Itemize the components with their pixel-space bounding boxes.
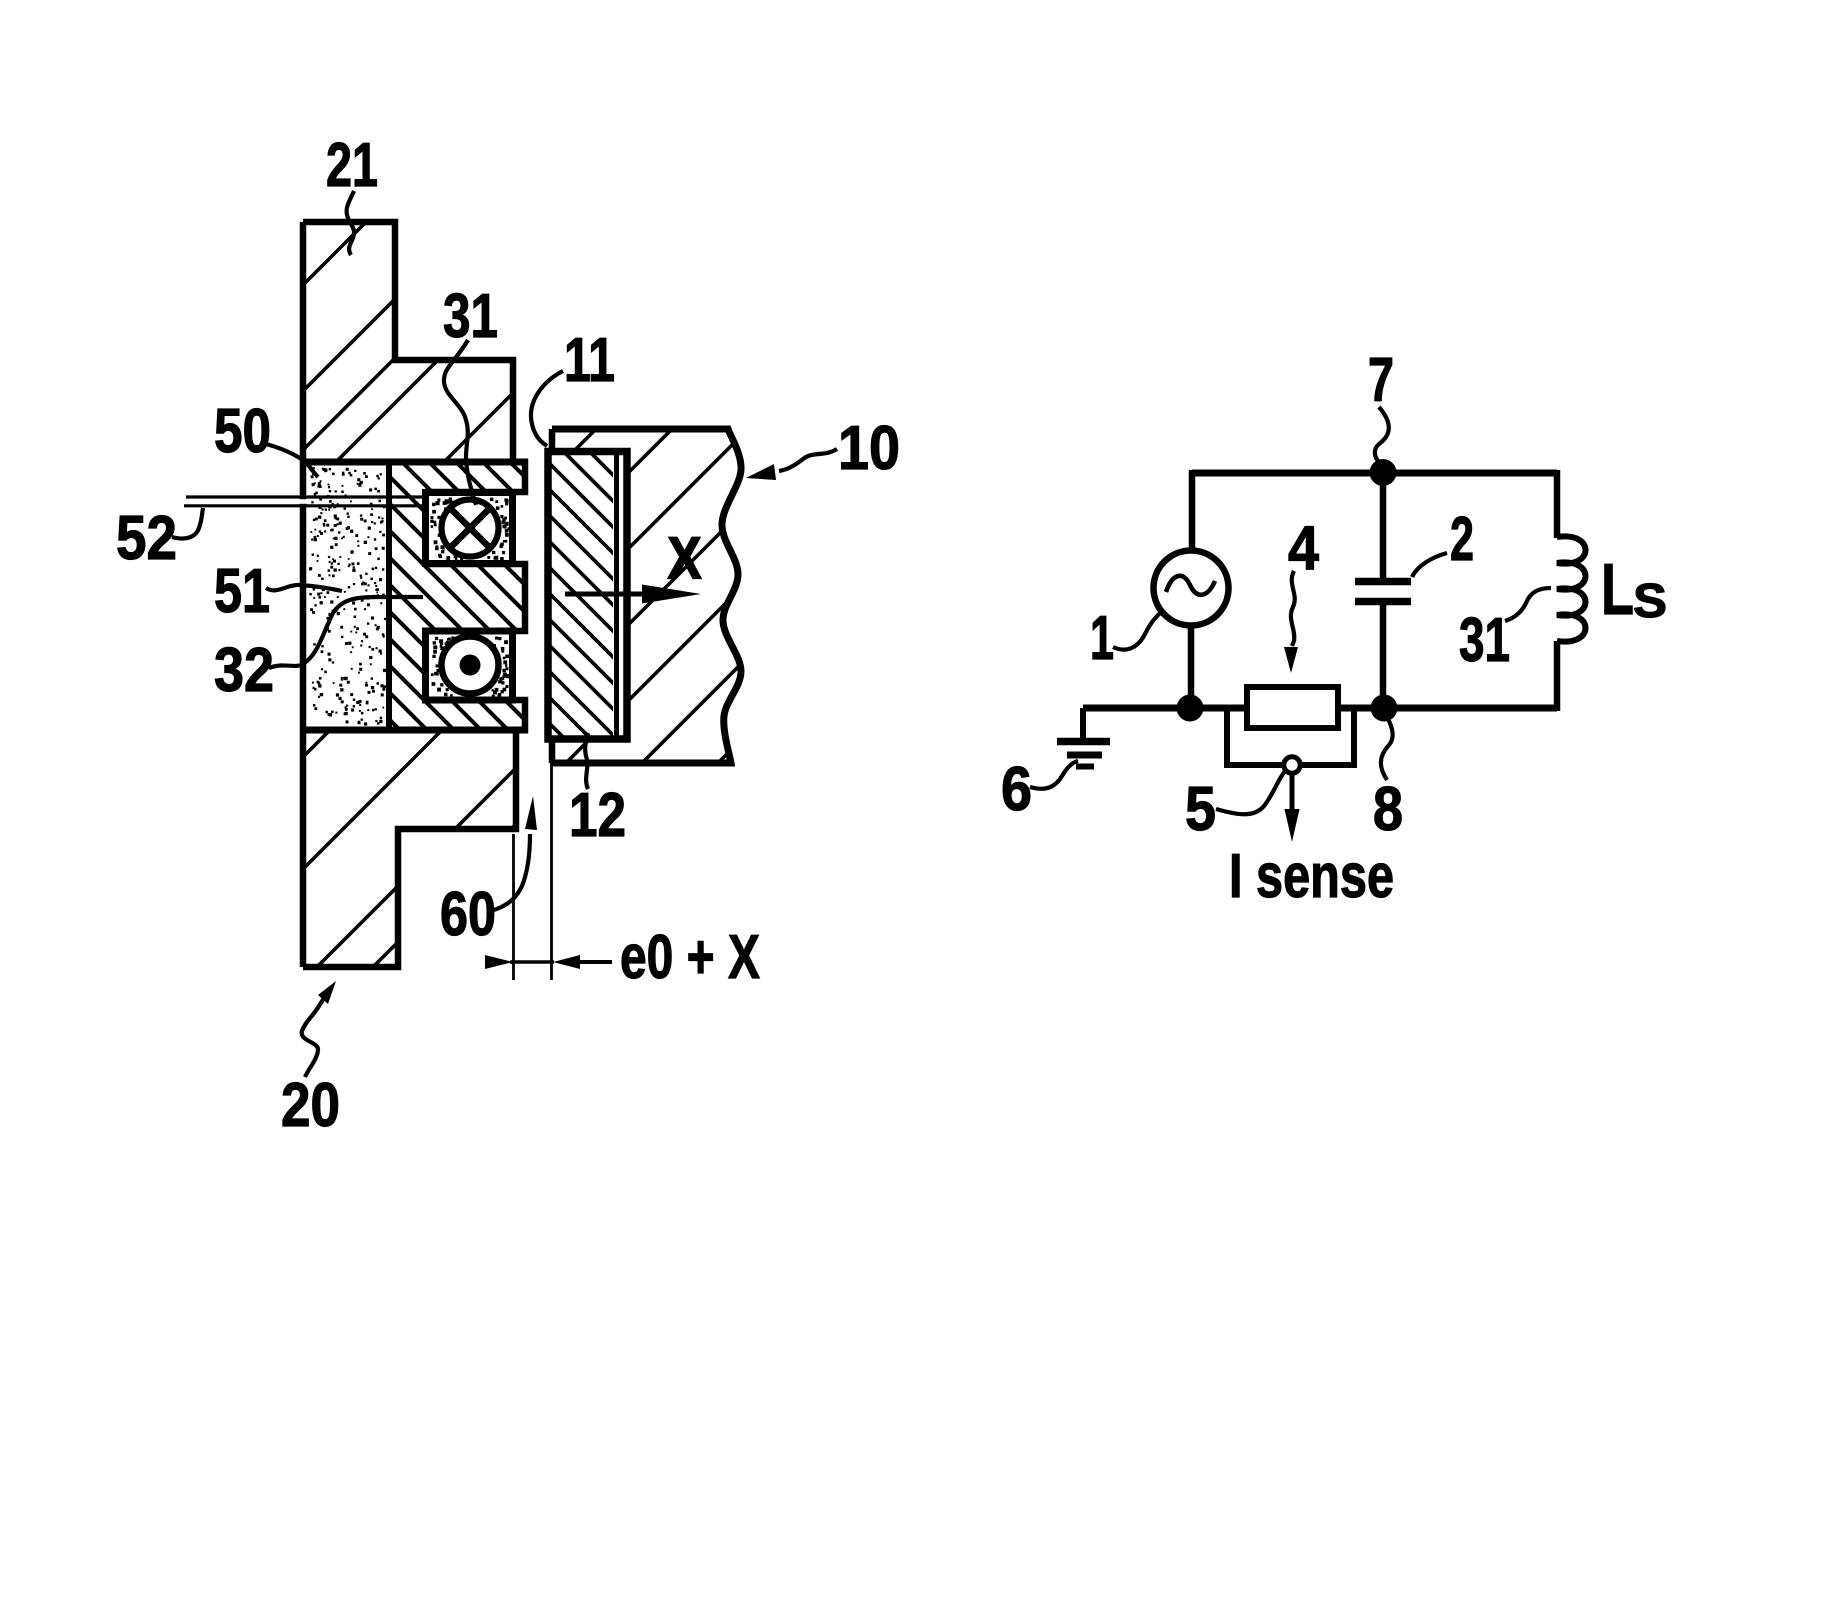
wires 52 — [184, 497, 425, 506]
coil 31 upper: current-into-page symbol — [442, 500, 499, 557]
coil 31 upper winding pocket — [426, 493, 513, 564]
svg-text:L: L — [1601, 550, 1634, 630]
target plate 11 (white base) — [548, 452, 627, 740]
coil lower winding pocket (return conductor) — [426, 631, 513, 700]
capacitor 2 plates — [1355, 582, 1411, 602]
label 12 leader — [585, 733, 588, 789]
extension line from target face — [550, 744, 553, 980]
bottom closing band — [301, 727, 528, 734]
target body 10 left edge — [549, 429, 556, 763]
wire: source top lead — [1189, 470, 1196, 552]
node: junction at source bottom — [1177, 695, 1204, 722]
svg-text:1: 1 — [1090, 604, 1114, 673]
target body 10 outline (wavy break edge at right) — [552, 429, 741, 763]
svg-text:7: 7 — [1368, 346, 1394, 415]
I sense output arrow — [1290, 774, 1295, 812]
svg-text:12: 12 — [569, 781, 626, 850]
svg-text:31: 31 — [443, 282, 498, 351]
wire: source bottom lead — [1188, 625, 1195, 710]
svg-text:51: 51 — [214, 557, 270, 626]
label 21 leader — [347, 191, 355, 255]
wire: bottom rail left segment (to ground) — [1083, 705, 1248, 712]
svg-text:4: 4 — [1288, 514, 1319, 583]
wire: coil branch top lead — [1554, 470, 1561, 538]
conductive layer 12 boundary line — [614, 452, 619, 739]
label 50 leader — [266, 444, 318, 477]
label 4 leader arrow — [1291, 571, 1295, 646]
sensor core 32 (E-core outline) — [389, 462, 525, 730]
slot in bracket for wires 52 — [298, 499, 310, 504]
label 6 leader — [1030, 761, 1078, 789]
svg-text:6: 6 — [1001, 755, 1032, 824]
hatching of wall bracket 20 (bottom arm) — [91, 728, 612, 969]
inductor Ls (sensor coil 31) — [1557, 536, 1586, 641]
label 60 leader arrow (air gap) — [490, 834, 530, 911]
wire: capacitor bottom lead — [1380, 605, 1387, 708]
svg-text:I sense: I sense — [1229, 842, 1394, 911]
label 32 leader (to core middle limb) — [269, 597, 423, 668]
stippled filler body 51 — [309, 467, 386, 726]
wire: top rail between source, capacitor and coil — [1192, 470, 1557, 477]
svg-text:60: 60 — [440, 880, 496, 949]
top closing band 50 — [301, 459, 528, 466]
label 52 leader — [172, 508, 203, 539]
svg-text:31: 31 — [1459, 606, 1510, 675]
target plate 11 outline — [548, 452, 627, 740]
label 5 leader — [1216, 770, 1286, 814]
sensor core 32 hatching — [132, 462, 778, 730]
label 7 leader — [1375, 407, 1389, 462]
hatching of wall bracket 21 (top arm) — [125, 220, 686, 463]
wall bracket 20 (bottom arm outline) — [303, 730, 516, 967]
label 31 leader (to upper coil) — [444, 340, 476, 505]
measuring resistor 4 — [1247, 687, 1338, 728]
output terminal 5 — [1284, 757, 1300, 773]
svg-text:50: 50 — [214, 397, 271, 466]
svg-text:2: 2 — [1450, 505, 1474, 574]
svg-text:10: 10 — [838, 414, 900, 483]
label 51 leader — [266, 585, 342, 591]
svg-text:8: 8 — [1373, 775, 1403, 844]
label 2 leader — [1412, 553, 1447, 577]
label 31 leader (to Ls) — [1505, 588, 1551, 621]
svg-text:X: X — [668, 526, 701, 591]
target body 10 hatching — [259, 426, 1055, 766]
wall bracket 21 (top arm outline) — [303, 222, 513, 461]
X displacement arrow — [565, 592, 648, 597]
svg-text:32: 32 — [214, 636, 274, 705]
node 8 junction dot — [1371, 695, 1398, 722]
svg-text:52: 52 — [116, 504, 177, 573]
extension line from sensor face — [512, 834, 515, 980]
dimension e0 + X — [510, 960, 554, 963]
svg-text:20: 20 — [281, 1071, 340, 1140]
label 10 leader arrow — [779, 449, 837, 471]
label 1 leader — [1113, 611, 1163, 650]
svg-text:5: 5 — [1185, 775, 1216, 844]
wire: capacitor top lead — [1380, 473, 1387, 578]
svg-text:21: 21 — [326, 131, 378, 200]
coil lower: current-out-of-page symbol — [442, 637, 499, 694]
ground 6 — [1080, 708, 1086, 739]
svg-text:S: S — [1633, 575, 1667, 628]
svg-text:11: 11 — [564, 326, 615, 395]
label 8 leader — [1381, 713, 1393, 780]
boundary between filler 51 and core — [386, 462, 392, 730]
node 7 junction dot — [1370, 459, 1397, 486]
label 20 leader arrow — [302, 998, 324, 1077]
wire: coil branch bottom lead — [1554, 641, 1561, 711]
target plate 11 hatching — [251, 451, 903, 739]
label 11 leader — [531, 371, 563, 446]
wire: bottom rail right segment — [1337, 705, 1557, 712]
bracket left edge — [300, 222, 307, 967]
ac excitation source 1 — [1154, 551, 1229, 626]
svg-text:e0 + X: e0 + X — [620, 923, 760, 992]
wire: sense tap loop under resistor — [1227, 711, 1354, 765]
